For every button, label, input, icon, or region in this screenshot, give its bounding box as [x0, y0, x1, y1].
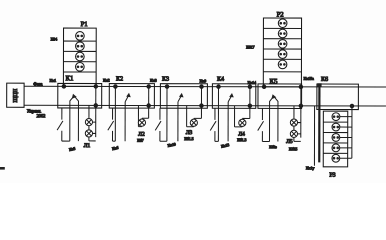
wire: Р3 right rail	[351, 106, 353, 158]
pins Р3	[332, 113, 352, 162]
contact К4	[218, 87, 233, 142]
label К617	[246, 44, 254, 49]
label Кн1у	[306, 165, 316, 170]
svg-text:Р2: Р2	[277, 12, 285, 19]
svg-text:Кн9: Кн9	[200, 78, 207, 83]
svg-text:ЩЦН: ЩЦН	[13, 88, 19, 103]
node: bottom bus К3	[200, 104, 204, 108]
label Р1	[81, 21, 88, 28]
svg-text:Р3: Р3	[329, 172, 335, 179]
svg-text:Кн1: Кн1	[50, 78, 57, 83]
contact К5	[269, 94, 277, 141]
lamp Л1 (two)	[85, 105, 95, 141]
label Кн15 К6	[304, 76, 328, 83]
relay box К1	[58, 83, 102, 108]
svg-text:Кб1з: Кб1з	[269, 144, 277, 149]
wire: lamp feed К4	[249, 87, 251, 106]
lamp Л5 (two)	[290, 106, 301, 142]
button contact Кн (section 1)	[57, 108, 70, 141]
button contact Кн (section 5)	[258, 108, 270, 141]
wire: Кн1у drop	[313, 106, 315, 166]
labels section 5	[269, 139, 297, 151]
node: top bus К2	[114, 85, 151, 89]
svg-text:Кн15а: Кн15а	[304, 76, 314, 81]
label К5	[270, 78, 278, 86]
label Кн14	[248, 80, 258, 85]
wire: lamp feed К2	[148, 87, 150, 106]
svg-text:Л1: Л1	[84, 143, 91, 149]
svg-text:Л5: Л5	[286, 139, 293, 145]
lamp Л3	[187, 106, 202, 127]
svg-text:Р1: Р1	[81, 21, 88, 28]
contact К2	[115, 86, 131, 141]
svg-text:Кн1у: Кн1у	[306, 165, 316, 170]
relay box К5	[258, 84, 302, 109]
label Управл. 2002	[27, 109, 46, 119]
labels section 3	[167, 130, 193, 148]
label К1	[66, 74, 74, 82]
svg-text:Кб7: Кб7	[137, 138, 144, 143]
button contact Кн (section 4)	[210, 108, 218, 141]
svg-text:Кн14: Кн14	[248, 80, 258, 85]
node: bottom bus К1	[94, 104, 98, 108]
node: bottom bus К5	[299, 104, 303, 108]
svg-text:Кб1.5: Кб1.5	[184, 136, 193, 141]
svg-text:К6: К6	[321, 76, 328, 83]
wire: lamp feed К3	[200, 87, 202, 106]
relay box К2	[109, 84, 154, 109]
labels section 2	[112, 132, 145, 151]
label Кн9 К4	[200, 76, 224, 84]
contact К1	[70, 94, 79, 141]
contact К3	[167, 87, 184, 142]
wire: lamp feed К1	[95, 86, 97, 105]
node: bottom bus К2	[147, 104, 151, 108]
svg-text:К04: К04	[51, 37, 58, 42]
wire: bottom bus Управл.2002	[24, 104, 386, 107]
labels section 1	[69, 143, 91, 152]
svg-text:К5: К5	[270, 78, 278, 86]
label К04	[51, 37, 58, 42]
label Фаза	[33, 83, 43, 88]
labels section 4	[221, 132, 247, 149]
svg-text:Фаза: Фаза	[33, 83, 43, 88]
pins Р1	[76, 32, 85, 72]
relay box К6	[317, 84, 359, 110]
svg-text:2002: 2002	[36, 114, 46, 119]
lamp Л4	[235, 106, 250, 127]
node: rail/bottom bus К6	[350, 104, 354, 108]
panel box ЩЦН	[7, 83, 24, 107]
scan edge mark	[0, 167, 5, 170]
svg-text:К3: К3	[162, 76, 169, 83]
relay box К4	[212, 84, 255, 109]
connector Р1 / relay coil К1 box	[63, 28, 96, 86]
svg-text:Кб1.3: Кб1.3	[237, 137, 246, 142]
connector Р2 / relay coil К5 box	[263, 18, 301, 87]
relay box К3	[160, 84, 207, 109]
svg-text:К617: К617	[246, 44, 254, 49]
connector Р3 box	[323, 111, 348, 167]
svg-text:К4: К4	[217, 76, 224, 83]
svg-text:К2: К2	[116, 75, 123, 82]
svg-text:К1: К1	[66, 74, 74, 82]
lamp Л2	[138, 106, 148, 127]
node: top bus К1	[62, 85, 97, 89]
wire: К6 thick drop	[317, 83, 322, 162]
node: top bus К3	[165, 85, 203, 89]
svg-text:Кн2: Кн2	[103, 78, 110, 83]
svg-text:Кн3: Кн3	[150, 78, 157, 83]
button contact Кн (section 3)	[155, 108, 167, 141]
label Кн3 К3	[150, 76, 169, 83]
node: bottom bus К4	[248, 104, 252, 108]
svg-text:Кб15: Кб15	[289, 146, 297, 151]
pins Р2	[278, 19, 287, 69]
wire: top bus Фаза	[24, 85, 386, 88]
node: top bus К4	[217, 85, 252, 89]
node: top bus К5	[262, 85, 302, 89]
button contact Кн (section 2)	[108, 108, 116, 141]
label Кн1	[50, 78, 57, 83]
label Кн2 К2	[103, 75, 123, 82]
label Р2	[277, 12, 285, 19]
wire: lamp feed К5	[300, 87, 302, 106]
label Р3	[329, 172, 335, 179]
